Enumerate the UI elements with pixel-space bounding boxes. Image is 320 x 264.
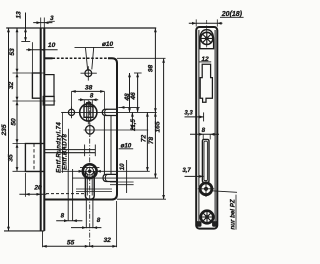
ext deadbolt thrown face xyxy=(24,173,26,197)
deadbolt retracted face dashed xyxy=(33,144,35,172)
svg-text:235: 235 xyxy=(1,124,8,136)
svg-text:32: 32 xyxy=(8,82,15,90)
svg-text:21,5: 21,5 xyxy=(131,119,137,132)
leader 3.7 xyxy=(185,175,204,177)
ext deadbolt top xyxy=(13,143,45,145)
dim line 20(18) xyxy=(189,22,223,24)
cylinder round part xyxy=(83,164,97,178)
cylinder circle cross xyxy=(198,181,214,197)
ext plate width right xyxy=(216,19,218,26)
screw cross spokes bottom xyxy=(200,210,214,224)
internal wall line left xyxy=(103,116,105,175)
dim line 10 right of case xyxy=(126,160,128,193)
screw post slot upper xyxy=(102,109,117,115)
svg-text:78: 78 xyxy=(148,137,155,145)
feature 3.3 tick xyxy=(203,112,205,121)
ext case right down xyxy=(116,201,118,247)
dim line 38 xyxy=(72,90,105,92)
o10 leader line left xyxy=(86,48,88,69)
ext slot1 up to 38 dim xyxy=(103,91,105,109)
svg-text:50: 50 xyxy=(10,118,17,126)
ext plate width left xyxy=(195,19,197,26)
tick 13 bottom xyxy=(21,41,30,43)
arrow 13 bottom xyxy=(24,37,27,41)
svg-text:46: 46 xyxy=(130,92,137,101)
stem inner left xyxy=(86,174,88,196)
dim line 165 case height xyxy=(163,59,165,200)
extension left circle up xyxy=(71,91,73,108)
svg-text:20: 20 xyxy=(33,184,42,191)
latch hole vertical centerline xyxy=(87,66,89,80)
underline nur bei PZ xyxy=(235,195,237,230)
ext line 8a left xyxy=(67,169,69,221)
cylinder axis extension left xyxy=(13,170,45,172)
latch guide box xyxy=(43,96,54,105)
ext stem left xyxy=(85,200,87,229)
ext line y107 xyxy=(118,106,139,108)
svg-text:32: 32 xyxy=(104,237,112,244)
ext 3 right xyxy=(43,18,45,28)
dim line 8 front xyxy=(190,133,219,135)
follower hub outer circle xyxy=(80,104,97,121)
follower square 8mm hole xyxy=(84,106,93,117)
faceplate front view outline xyxy=(196,27,217,229)
screw cross spokes top xyxy=(200,32,214,46)
svg-text:8: 8 xyxy=(202,127,206,134)
square keyway notch bottom xyxy=(87,117,91,121)
dim line 13 xyxy=(25,13,27,42)
hidden edge in case bottom xyxy=(46,193,84,195)
cylinder hole front xyxy=(200,183,212,195)
latch spindle hole o10 xyxy=(85,70,92,77)
svg-text:3,7: 3,7 xyxy=(182,168,191,174)
stem inner right xyxy=(91,174,93,196)
svg-text:Entf.Rundzyl.74: Entf.Rundzyl.74 xyxy=(56,122,62,173)
case top extension right xyxy=(117,57,166,59)
ext line 8a right xyxy=(72,169,74,221)
cylinder stem slot front xyxy=(202,139,209,182)
follower axis line xyxy=(61,111,157,113)
svg-text:3,3: 3,3 xyxy=(184,111,193,117)
underline Entf.Rundzyl.74 xyxy=(61,113,63,173)
deadbolt cutout front xyxy=(200,64,212,102)
internal wall line right xyxy=(110,116,112,175)
svg-text:nur bei PZ: nur bei PZ xyxy=(229,199,236,229)
svg-text:Entf.BAD78: Entf.BAD78 xyxy=(63,134,69,170)
svg-text:98: 98 xyxy=(147,65,154,73)
svg-text:10: 10 xyxy=(48,42,56,49)
o10 leader line right xyxy=(92,47,94,69)
latch bolt front view dome xyxy=(200,30,214,49)
dim line 8 b xyxy=(71,227,101,229)
svg-text:72: 72 xyxy=(140,135,147,143)
screw hole top xyxy=(201,32,213,44)
extension line y178 xyxy=(72,177,158,179)
plate bottom corner pads xyxy=(197,222,201,227)
ext square right xyxy=(91,100,93,108)
cylinder dia arrow left xyxy=(79,170,83,173)
fixing hole left xyxy=(68,109,74,115)
wire faceplate top edge / extension line xyxy=(6,27,156,29)
tick on tail left xyxy=(84,145,86,157)
chain dimension line left xyxy=(16,28,18,171)
svg-text:8: 8 xyxy=(61,212,65,219)
deadbolt tail lower line xyxy=(44,152,95,154)
underline 20(18) xyxy=(220,16,244,18)
svg-text:10: 10 xyxy=(119,163,126,170)
svg-text:55: 55 xyxy=(67,240,75,247)
dim line 72 xyxy=(146,112,148,171)
dim line 48 xyxy=(129,73,131,112)
dim line 21.5 xyxy=(131,112,133,130)
underline 3 xyxy=(49,20,55,22)
cylinder center dot xyxy=(88,170,91,173)
svg-text:165: 165 xyxy=(154,121,161,132)
case bottom extension right xyxy=(117,198,166,200)
deadbolt head (thrown) xyxy=(25,144,44,172)
short ext y184 xyxy=(110,184,134,186)
follower vertical centerline xyxy=(87,100,89,124)
lock case outline xyxy=(44,57,52,59)
ext faceplate bottom down xyxy=(42,231,44,247)
short line y189 xyxy=(76,188,112,190)
tick on tail end xyxy=(94,145,96,157)
second cylinder axis (Rundzyl) xyxy=(80,167,99,169)
leader line nur bei PZ xyxy=(212,191,237,193)
dim line 8 a xyxy=(56,220,82,222)
short line y191 xyxy=(76,191,112,193)
latch hole horizontal centerline xyxy=(81,72,97,74)
square keyway notch top xyxy=(87,103,91,107)
ext stem right xyxy=(92,200,94,229)
faceplate front face (side view) xyxy=(40,28,42,231)
square inner line right xyxy=(90,106,92,117)
cylinder dia arrow right xyxy=(97,170,101,173)
short ext y182 xyxy=(110,181,134,183)
deadbolt tail upper line xyxy=(44,149,95,151)
latch bolt head xyxy=(32,73,40,98)
screw post slot lower xyxy=(103,174,117,181)
case silhouette left xyxy=(198,30,200,221)
svg-text:8: 8 xyxy=(97,217,101,224)
arrow 13 top xyxy=(24,28,27,32)
svg-text:53: 53 xyxy=(9,48,16,56)
o10 label underline xyxy=(75,46,114,48)
latch bolt body xyxy=(44,75,54,97)
svg-text:13: 13 xyxy=(16,11,23,19)
leader 3.3 xyxy=(185,116,204,118)
svg-text:8: 8 xyxy=(90,93,94,100)
front view centerline top xyxy=(206,20,208,48)
faceplate back face (side view) xyxy=(43,28,45,231)
label underline o10 lower xyxy=(119,148,134,150)
underline Entf.BAD78 xyxy=(68,129,70,170)
faceplate bottom edge extension xyxy=(4,230,44,232)
main vertical centerline dash-dot xyxy=(89,101,91,247)
svg-text:38: 38 xyxy=(85,84,93,91)
hole axis extension to dim 21.5 xyxy=(84,129,149,131)
dim line 55-32 xyxy=(43,245,117,247)
tick latch axis right xyxy=(134,72,142,74)
ext latch face up xyxy=(31,42,33,72)
cylinder axis line xyxy=(61,170,150,172)
ext square left xyxy=(83,100,85,108)
dim line 20 xyxy=(19,193,46,195)
case silhouette right xyxy=(214,30,216,221)
dim line 235 xyxy=(8,28,10,231)
fixing hole vertical centerline xyxy=(71,107,73,119)
dim line 10 xyxy=(26,49,57,51)
screw hole bottom xyxy=(201,211,214,224)
dim line 3 xyxy=(33,22,52,24)
dim line 46 xyxy=(137,73,139,112)
ext y101 xyxy=(13,100,56,102)
dim line 98-78 chain xyxy=(154,28,156,178)
label 12 underline xyxy=(199,61,211,63)
square inner line left xyxy=(86,106,88,117)
cylinder stem xyxy=(85,171,94,199)
cylinder inner circle xyxy=(86,167,94,175)
hole o10 below follower xyxy=(86,126,95,135)
ext latch axis xyxy=(13,72,45,74)
dim line 8 square xyxy=(78,99,98,101)
ext 3 left xyxy=(40,18,42,28)
